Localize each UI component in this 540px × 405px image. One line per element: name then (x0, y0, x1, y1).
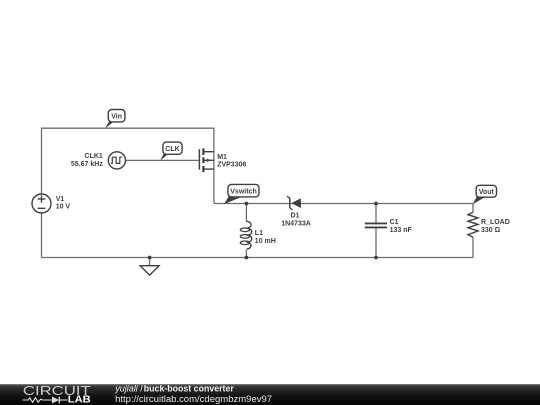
svg-text:55.67 kHz: 55.67 kHz (71, 161, 103, 168)
transistor M1 PMOS (199, 148, 214, 172)
capacitor C1 (365, 223, 387, 227)
diode D1 zener (287, 196, 301, 210)
CircuitLab logo diode (52, 397, 59, 404)
node junction ground (148, 256, 152, 260)
svg-text:M1: M1 (217, 154, 227, 161)
resistor R_LOAD (468, 212, 478, 237)
svg-text:yujiali: yujiali (114, 383, 139, 393)
svg-text:Vin: Vin (111, 113, 122, 120)
svg-text:CLK1: CLK1 (85, 153, 103, 160)
svg-text:1N4733A: 1N4733A (281, 220, 311, 227)
svg-text:V1: V1 (56, 196, 65, 203)
wire left rail below V1 (41, 213, 43, 258)
svg-text:http://circuitlab.com/cdegmbzm: http://circuitlab.com/cdegmbzm9ev97 (115, 394, 272, 405)
node flag Vout (473, 185, 497, 204)
svg-text:133 nF: 133 nF (390, 227, 413, 234)
wire C1 bottom lead (375, 228, 377, 257)
wire R_LOAD top lead (472, 204, 474, 213)
wire R_LOAD bottom lead (472, 237, 474, 257)
wire CLK to gate (126, 159, 199, 161)
svg-text:buck-boost converter: buck-boost converter (144, 383, 235, 393)
node junction L1 bottom (245, 256, 249, 260)
svg-text:Vout: Vout (479, 189, 495, 196)
clock source CLK1 (108, 152, 125, 169)
node flag CLK (160, 142, 182, 161)
svg-text:CLK: CLK (165, 146, 179, 153)
CircuitLab logo zigzag resistor (23, 398, 52, 403)
wire C1 top lead (375, 204, 377, 223)
inductor L1 (240, 221, 251, 249)
svg-text:Vswitch: Vswitch (230, 188, 256, 195)
wire L1 bottom lead (245, 250, 247, 258)
svg-text:L1: L1 (255, 230, 263, 237)
svg-text:ZVP3306: ZVP3306 (217, 162, 246, 169)
svg-text:330 Ω: 330 Ω (481, 227, 501, 234)
svg-text:C1: C1 (390, 219, 399, 226)
svg-text:10 V: 10 V (56, 203, 71, 210)
svg-text:10 mH: 10 mH (255, 238, 276, 245)
ground (140, 266, 159, 276)
node junction C1 top (374, 202, 378, 206)
wire top rail Vin (42, 128, 214, 203)
svg-text:R_LOAD: R_LOAD (481, 219, 510, 226)
voltage source V1 (32, 194, 51, 213)
wire ground stub (149, 258, 151, 266)
wire L1 top lead (245, 204, 247, 222)
node junction C1 bottom (374, 256, 378, 260)
svg-text:LAB: LAB (68, 395, 91, 405)
wire Vswitch node horizontal (214, 203, 473, 205)
wire bottom rail (42, 257, 474, 259)
node junction L1 top (245, 202, 249, 206)
node flag Vin (105, 110, 125, 129)
svg-text:D1: D1 (291, 213, 300, 220)
node flag Vswitch (224, 184, 259, 204)
